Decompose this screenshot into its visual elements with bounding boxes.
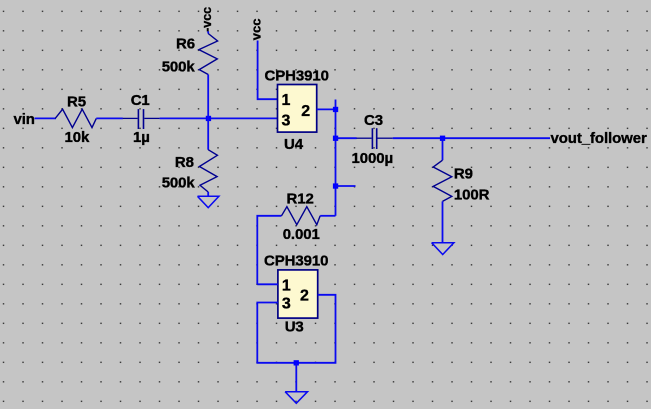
svg-text:vout_follower: vout_follower (551, 130, 647, 147)
wire C1 to U4 pin3 (160, 117, 278, 119)
svg-text:C1: C1 (131, 92, 150, 109)
wire vin to R5 (35, 117, 57, 119)
svg-text:R9: R9 (454, 166, 473, 183)
wire R9 to ground (442, 201, 444, 242)
capacitor C1 (123, 109, 160, 129)
ground under R9 (432, 243, 454, 255)
svg-text:C3: C3 (364, 112, 383, 129)
svg-text:500k: 500k (162, 59, 196, 76)
svg-text:100R: 100R (454, 187, 490, 204)
wire stub above pin2 node (335, 100, 337, 110)
wire R6 to junction (207, 75, 209, 150)
resistor R9 (433, 160, 452, 201)
svg-text:U4: U4 (284, 136, 304, 153)
resistor R6 (199, 34, 218, 75)
capacitor C3 (356, 128, 392, 149)
svg-text:1000µ: 1000µ (352, 150, 394, 167)
wire vertical bus down to R12 (335, 109, 337, 215)
svg-text:1: 1 (282, 92, 291, 109)
wire bus to C3 (336, 137, 357, 139)
svg-text:-vcc: -vcc (200, 7, 214, 32)
node ground tap (U3) (294, 360, 299, 365)
wire U3 ground stub (295, 363, 297, 392)
wire R12 right lead (320, 215, 335, 217)
wire U3 pin3 loop to bottom (257, 295, 335, 363)
svg-text:3: 3 (282, 113, 291, 130)
svg-text:0.001: 0.001 (283, 226, 320, 243)
svg-text:vin: vin (14, 111, 35, 128)
wire U3 pin1 stub (257, 283, 278, 285)
node stub tap (333, 183, 338, 188)
node R9 tap (440, 136, 445, 141)
svg-text:CPH3910: CPH3910 (265, 68, 329, 85)
svg-text:1µ: 1µ (133, 129, 150, 146)
wire -vcc to R6 (207, 31, 209, 33)
wire stub right of bus (336, 185, 356, 187)
resistor R12 (282, 207, 321, 225)
svg-text:10k: 10k (65, 129, 90, 146)
resistor R5 (55, 109, 96, 127)
svg-text:vcc: vcc (249, 18, 264, 40)
svg-text:R12: R12 (287, 190, 314, 207)
ground under U3 (285, 392, 307, 404)
wire junction to R9 (442, 138, 444, 160)
svg-text:500k: 500k (162, 175, 196, 192)
wire C3 to vout_follower (393, 137, 550, 139)
wire U4 pin2 to vertical bus (317, 108, 336, 110)
wire R8 to ground (207, 192, 209, 196)
wire R12 left lead (257, 216, 281, 284)
svg-text:2: 2 (301, 103, 310, 120)
wire vcc to U4 pin1 (258, 41, 278, 100)
wire R5 to C1 (96, 117, 123, 119)
ground under R8 (198, 196, 219, 207)
resistor R8 (199, 150, 217, 192)
node C3 tap (333, 136, 338, 141)
op-amp U3 (CPH3910 box) (278, 270, 318, 318)
svg-text:R8: R8 (175, 154, 194, 171)
svg-text:CPH3910: CPH3910 (264, 253, 328, 270)
svg-text:U3: U3 (285, 318, 304, 335)
svg-text:3: 3 (282, 295, 291, 312)
svg-text:2: 2 (300, 287, 309, 304)
svg-text:R5: R5 (67, 93, 86, 110)
svg-text:R6: R6 (176, 35, 195, 52)
node junction at R6/R8 column (206, 116, 211, 121)
op-amp U4 (CPH3910 box) (278, 85, 317, 133)
svg-text:1: 1 (282, 277, 291, 294)
node pin2 corner (333, 107, 338, 112)
